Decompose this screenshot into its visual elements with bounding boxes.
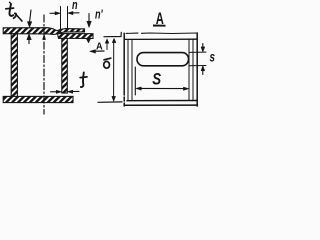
- svg-text:A: A: [96, 41, 103, 53]
- web W2 thickness arrows: [51, 90, 80, 93]
- dimension s (slot width) extensions: [189, 51, 206, 53]
- svg-text:s: s: [210, 49, 216, 65]
- projection line top (between views): [104, 32, 121, 36]
- centerline: [43, 15, 45, 114]
- plan view top edge inner: [124, 38, 197, 40]
- plan view bottom edge outer: [124, 104, 197, 106]
- section arrow A (left view): [90, 50, 104, 53]
- dimension t1 arrows: [27, 10, 32, 44]
- web W2 (right vertical member): [62, 38, 68, 93]
- bottom flange plate: [3, 96, 73, 102]
- inner bend line left 2: [131, 39, 133, 100]
- t1 leader: [16, 14, 23, 21]
- inner bend line left 1: [127, 39, 129, 100]
- plan view outer left edge: [123, 33, 125, 90]
- inner bend line right 2: [192, 39, 194, 100]
- plan view top edge outer: [126, 32, 138, 34]
- plan view bottom edge inner: [127, 100, 197, 102]
- svg-text:n: n: [72, 0, 78, 12]
- dimension n' arrows: [86, 14, 91, 43]
- dimension s arrows: [201, 44, 205, 75]
- svg-text:n': n': [95, 8, 103, 22]
- label t1: [6, 2, 17, 18]
- dimension n lines + arrows: [50, 11, 79, 14]
- dimension n extension lines: [60, 7, 62, 34]
- lower skin sheet (right): [58, 34, 94, 39]
- label t (web thickness): [80, 73, 87, 88]
- slot (elongated hole): [137, 53, 189, 66]
- plan view outer right edge: [196, 33, 198, 106]
- svg-text:S: S: [152, 70, 161, 89]
- dimension S (slot length): [135, 67, 188, 95]
- centerline arrow blob: [43, 34, 46, 39]
- projection line bottom: [98, 101, 122, 103]
- inner bend line right 1: [188, 39, 190, 100]
- web W1 (left vertical member): [11, 34, 17, 97]
- upper skin sheet (left, joggled): [3, 28, 84, 35]
- label b (rotated): [104, 58, 111, 60]
- dimension b line + arrows: [105, 38, 116, 101]
